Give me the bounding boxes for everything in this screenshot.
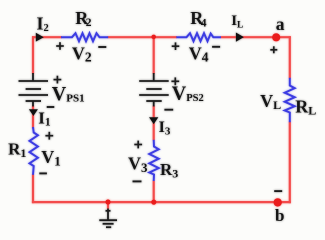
wire left branch upper bbox=[32, 36, 34, 74]
arrow current I2 bbox=[36, 33, 44, 42]
node junction dot bottom-middle bbox=[151, 200, 156, 205]
polarity plus V1 bbox=[45, 132, 53, 140]
wire top-left horizontal segment bbox=[32, 36, 62, 38]
arrow current I3 (downward) bbox=[149, 117, 158, 124]
wire right branch upper bbox=[289, 36, 291, 78]
resistor R4 bbox=[176, 33, 221, 41]
polarity minus V3 bbox=[133, 180, 142, 182]
wire left branch mid (current I1 section) bbox=[32, 106, 34, 129]
wire top-middle horizontal segment bbox=[108, 36, 178, 38]
polarity minus V2 bbox=[98, 46, 106, 48]
polarity minus V4 bbox=[212, 46, 220, 48]
battery VPS1 bbox=[19, 73, 49, 107]
arrow current I1 (downward) bbox=[29, 109, 38, 116]
polarity plus node a bbox=[270, 46, 277, 53]
polarity plus VPS2 bbox=[171, 77, 179, 85]
polarity plus V4 bbox=[172, 42, 180, 50]
wire right branch lower bbox=[289, 122, 291, 204]
arrow current IL bbox=[236, 33, 244, 42]
polarity minus V1 bbox=[39, 172, 47, 174]
wire middle branch upper bbox=[153, 36, 155, 74]
node A dot bbox=[272, 33, 280, 41]
resistor R2 bbox=[61, 33, 108, 41]
battery VPS2 bbox=[139, 73, 169, 107]
node B dot bbox=[274, 198, 282, 206]
wire left branch lower bbox=[32, 174, 34, 203]
svg-text:a: a bbox=[276, 14, 285, 34]
polarity minus node b bbox=[274, 190, 282, 192]
ground bbox=[99, 209, 117, 228]
polarity minus VPS1 bbox=[47, 106, 55, 108]
polarity plus V2 bbox=[56, 42, 64, 50]
polarity plus VPS1 bbox=[54, 76, 62, 84]
polarity plus V3 bbox=[134, 141, 142, 149]
wire ground stub bbox=[107, 202, 109, 208]
node junction dot top-middle bbox=[151, 35, 156, 40]
wire bottom horizontal bbox=[32, 201, 291, 203]
svg-text:b: b bbox=[275, 206, 284, 225]
resistor R1 bbox=[30, 127, 38, 175]
resistor R3 bbox=[149, 140, 158, 181]
wire middle branch lower bbox=[153, 181, 155, 203]
wire top-right horizontal segment bbox=[221, 36, 291, 38]
wire middle branch mid (current I3 section) bbox=[153, 106, 155, 141]
node junction dot ground bbox=[105, 199, 110, 204]
resistor RL bbox=[285, 78, 295, 122]
polarity minus VPS2 bbox=[164, 109, 173, 111]
